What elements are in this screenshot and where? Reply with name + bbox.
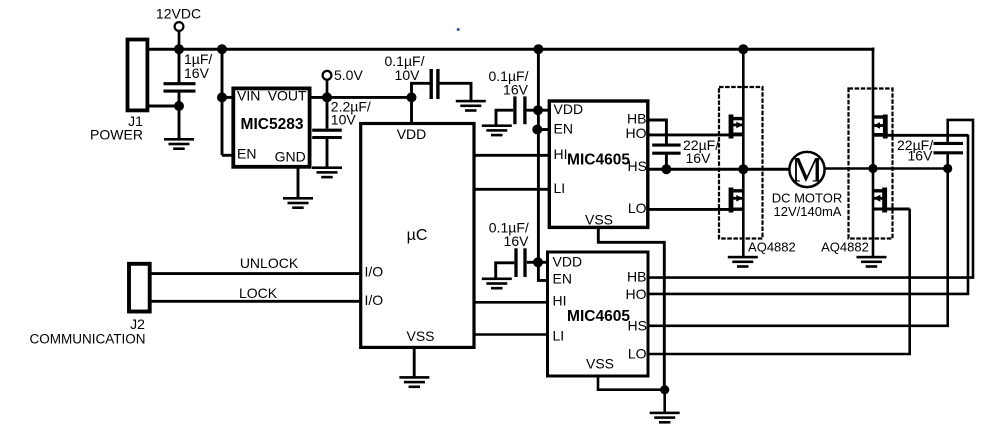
junction VIN / EN drop	[217, 92, 227, 102]
terminal 12VDC	[175, 22, 184, 49]
ground VSS drivers	[650, 412, 680, 424]
junction VSS 1 / VSS 2 ground	[660, 385, 669, 394]
wire uC VSS	[413, 347, 416, 376]
junction HS / bridge 1	[738, 164, 748, 174]
svg-text:GND: GND	[275, 149, 306, 165]
svg-text:LO: LO	[628, 346, 647, 362]
svg-text:MIC4605: MIC4605	[567, 308, 630, 325]
capacitor C1 1uF/16V	[164, 49, 196, 138]
wire motor to bridge 2	[825, 167, 950, 170]
wire VSS 1	[598, 227, 664, 390]
driver U2 MIC4605	[549, 101, 648, 227]
wire bridge 1 half-bridge vertical	[742, 48, 745, 257]
svg-text:HI: HI	[554, 146, 568, 162]
wire 12V drop to drivers VDD/EN	[538, 49, 550, 280]
svg-text:HB: HB	[627, 269, 646, 285]
wire HB 1 to bootstrap cap	[648, 120, 667, 144]
wire LI 2	[473, 333, 548, 336]
junction rail / drivers VDD drop	[533, 44, 543, 54]
wire VSS 2	[598, 376, 665, 390]
svg-text:EN: EN	[237, 146, 256, 162]
connector J1	[128, 40, 148, 111]
transistor Q2 (low side, bridge 1)	[729, 188, 744, 213]
ground C4	[482, 124, 512, 136]
capacitor C7 22uF/16V	[934, 143, 964, 168]
svg-text:MIC5283: MIC5283	[241, 116, 304, 133]
svg-text:EN: EN	[554, 121, 573, 137]
svg-text:12V/140mA: 12V/140mA	[774, 204, 842, 219]
svg-text:5.0V: 5.0V	[334, 67, 363, 83]
junction HS / bridge 2	[868, 164, 877, 173]
junction 5V / C2	[322, 92, 332, 102]
svg-text:10V: 10V	[331, 112, 357, 128]
junction HS / C7	[943, 164, 952, 173]
wire HS 2	[648, 169, 948, 326]
wire rail to VIN and EN	[222, 49, 234, 155]
microcontroller U4 uC	[361, 124, 474, 348]
wire Q4 gate stub	[873, 208, 910, 211]
capacitor C2 2.2uF/10V	[312, 97, 342, 166]
svg-text:I/O: I/O	[365, 292, 384, 308]
ground C2	[312, 166, 342, 178]
junction rail / J1-C1 node	[174, 44, 184, 54]
svg-text:I/O: I/O	[365, 263, 384, 279]
svg-text:VDD: VDD	[553, 254, 583, 270]
connector J2	[129, 264, 150, 312]
svg-text:16V: 16V	[503, 82, 529, 98]
junction HS / C6	[661, 164, 671, 174]
svg-text:AQ4882: AQ4882	[821, 239, 869, 254]
svg-text:16V: 16V	[504, 233, 530, 249]
wire VOUT 5V rail	[310, 96, 413, 99]
svg-text:HS: HS	[628, 158, 647, 174]
terminal 5.0V	[323, 71, 332, 98]
svg-text:16V: 16V	[908, 148, 934, 164]
ground U1 GND	[283, 197, 313, 209]
capacitor C6 22uF/16V	[652, 145, 680, 169]
wire 5V up to C3	[412, 83, 430, 97]
svg-text:LO: LO	[628, 200, 647, 216]
wire LO 2 to Q4 gate	[648, 209, 910, 354]
transistor Q3 (high side, bridge 2)	[873, 115, 888, 139]
transistor Q4 (low side, bridge 2)	[873, 188, 887, 213]
stray mark	[457, 28, 460, 31]
svg-text:COMMUNICATION: COMMUNICATION	[30, 332, 146, 347]
junction 5V / uC VDD / C3	[407, 92, 417, 102]
svg-text:12VDC: 12VDC	[156, 6, 201, 22]
junction rail / VIN drop	[217, 44, 227, 54]
junction VDD U3	[533, 257, 543, 267]
ground C1	[164, 138, 194, 150]
svg-text:M: M	[791, 150, 823, 190]
wire GND pin	[297, 167, 300, 198]
wire 12V top rail	[147, 48, 874, 51]
svg-text:VSS: VSS	[586, 356, 614, 372]
wire 5V to uC VDD	[410, 97, 413, 124]
svg-text:HI: HI	[553, 293, 567, 309]
svg-text:J2: J2	[130, 316, 145, 332]
transistor Q1 (high side, bridge 1)	[729, 115, 744, 139]
wire J1 pin 2 to C1 bottom node	[147, 105, 180, 108]
svg-text:VDD: VDD	[554, 101, 584, 117]
svg-text:16V: 16V	[184, 65, 210, 81]
wire Q3 gate stub	[873, 134, 968, 137]
svg-text:HO: HO	[626, 125, 647, 141]
junction EN U2	[532, 125, 542, 135]
svg-text:10V: 10V	[395, 67, 421, 83]
capacitor C4 0.1uF/16V	[496, 96, 538, 124]
svg-text:LOCK: LOCK	[239, 285, 278, 301]
svg-text:VSS: VSS	[585, 212, 613, 228]
junction VDD U2	[533, 105, 543, 115]
wire HS net (U2 to motor)	[648, 168, 790, 171]
svg-text:16V: 16V	[686, 150, 712, 166]
ground C3	[456, 100, 486, 112]
svg-text:µC: µC	[407, 227, 428, 244]
svg-text:VOUT: VOUT	[268, 88, 307, 104]
motor M1	[789, 150, 824, 190]
wire HO 1 gate	[648, 133, 744, 136]
ground bridge 2	[857, 256, 887, 268]
wire LOCK net	[150, 300, 361, 303]
wire UNLOCK net	[150, 272, 361, 275]
junction rail / bridge 1	[738, 44, 748, 54]
svg-text:VIN: VIN	[237, 88, 260, 104]
wire C3 to ground	[440, 83, 472, 100]
bridge A1 AQ4882	[719, 87, 763, 239]
wire VSS junction to ground	[663, 390, 666, 413]
driver U3 MIC4605	[548, 252, 649, 376]
ground C5	[482, 278, 512, 290]
svg-text:MIC4605: MIC4605	[567, 151, 630, 168]
wire LI 1	[474, 188, 549, 191]
capacitor C3 0.1uF/10V	[431, 69, 438, 99]
svg-text:UNLOCK: UNLOCK	[240, 255, 299, 271]
wire HI 2	[473, 301, 548, 304]
junction C1 / J1 pin 2	[174, 101, 184, 111]
capacitor C5 0.1uF/16V	[496, 248, 539, 277]
svg-text:VDD: VDD	[397, 126, 427, 142]
regulator U1 MIC5283	[233, 88, 309, 166]
wire LO 1 gate	[648, 208, 744, 211]
bridge A2 AQ4882	[849, 89, 893, 239]
wire HI 1	[474, 154, 549, 157]
svg-text:VSS: VSS	[406, 328, 434, 344]
ground bridge 1	[728, 256, 758, 268]
svg-text:LI: LI	[553, 328, 565, 344]
wire HB 2 to bootstrap cap C7	[648, 120, 973, 278]
svg-text:POWER: POWER	[90, 127, 143, 143]
svg-text:EN: EN	[553, 271, 572, 287]
svg-text:HS: HS	[628, 318, 647, 334]
ground uC VSS	[399, 376, 429, 388]
wire HO 2 to Q3 gate	[648, 135, 968, 294]
svg-text:LI: LI	[554, 180, 566, 196]
svg-text:AQ4882: AQ4882	[748, 239, 796, 254]
svg-text:HO: HO	[626, 286, 647, 302]
wire bridge 2 half-bridge vertical	[872, 48, 875, 257]
